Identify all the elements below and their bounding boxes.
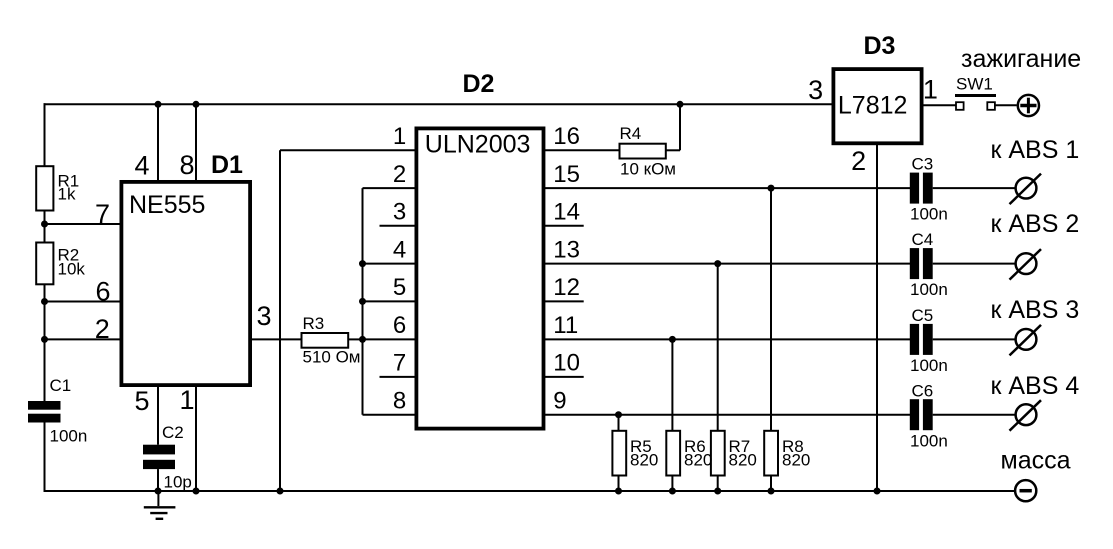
svg-text:10 кОм: 10 кОм <box>620 160 676 179</box>
svg-text:10p: 10p <box>164 473 192 492</box>
wire R8 vertical top <box>770 188 772 431</box>
svg-text:R4: R4 <box>620 124 642 143</box>
resistor R6 <box>666 431 680 476</box>
svg-text:5: 5 <box>134 386 149 416</box>
svg-text:820: 820 <box>729 451 757 470</box>
capacitor C3 plates <box>910 173 919 204</box>
IC D1 NE555 box <box>121 182 250 385</box>
wire input bracket vertical <box>362 188 364 415</box>
junction dots ABS rows <box>768 185 775 192</box>
svg-text:2: 2 <box>851 146 866 176</box>
wire left rail upper <box>44 103 46 401</box>
IC D3 L7812 box <box>833 69 921 143</box>
capacitor C5 plates <box>910 324 919 355</box>
IC D2 ULN2003 box <box>416 128 543 428</box>
wire left rail lower <box>44 423 46 493</box>
svg-text:12: 12 <box>553 274 580 301</box>
wire ULN pin9 row4 left of C6 <box>544 414 910 416</box>
capacitor C4 plates <box>910 248 919 279</box>
svg-text:к ABS 3: к ABS 3 <box>991 296 1080 324</box>
svg-text:D1: D1 <box>211 151 243 179</box>
wire R7 vertical top <box>717 264 719 431</box>
svg-text:16: 16 <box>553 123 580 150</box>
svg-text:1k: 1k <box>58 185 76 204</box>
svg-text:10: 10 <box>553 350 580 377</box>
svg-text:масса: масса <box>1001 447 1071 475</box>
wire ULN pin2 <box>363 187 417 189</box>
svg-text:к ABS 4: к ABS 4 <box>991 372 1080 400</box>
wire ULN pin3 stub <box>380 225 417 227</box>
svg-text:100n: 100n <box>910 280 948 299</box>
ULN2003 pin numbers right <box>553 123 580 415</box>
wire ULN pin7 stub <box>380 376 417 378</box>
wire NE555 pin5 vertical lower <box>157 469 159 491</box>
svg-text:2: 2 <box>393 161 406 188</box>
resistor R8 <box>764 431 778 476</box>
resistor R2 <box>36 243 53 285</box>
svg-text:8: 8 <box>393 388 406 415</box>
wire row4 right of C6 <box>933 414 1016 416</box>
resistor R4 <box>620 144 666 159</box>
svg-text:7: 7 <box>393 350 406 377</box>
svg-text:7: 7 <box>95 199 110 229</box>
wire NE555 pin5 vertical upper <box>157 385 159 445</box>
wire row1 right of C3 <box>933 187 1016 189</box>
svg-text:15: 15 <box>553 161 580 188</box>
svg-text:D3: D3 <box>864 32 896 60</box>
wire R5 vertical top <box>618 415 620 431</box>
wire NE555 pin8 vertical <box>195 104 197 182</box>
wire ULN pin6 <box>363 338 417 340</box>
wire NE555 pin3 to R3 <box>250 338 302 340</box>
svg-text:820: 820 <box>684 451 712 470</box>
terminal ABS1 <box>1010 174 1042 205</box>
svg-text:3: 3 <box>393 199 406 226</box>
svg-text:10k: 10k <box>58 260 86 279</box>
wire D3 pin2 vertical <box>876 145 878 491</box>
terminal ABS4 <box>1010 400 1042 431</box>
svg-text:к ABS 2: к ABS 2 <box>991 210 1080 238</box>
svg-text:1: 1 <box>179 385 194 415</box>
svg-text:13: 13 <box>553 236 580 263</box>
svg-text:SW1: SW1 <box>956 75 993 94</box>
svg-text:100n: 100n <box>50 427 88 446</box>
wire NE555 pin2 <box>45 338 123 340</box>
junction dots bracket <box>359 260 366 267</box>
svg-text:C6: C6 <box>912 382 934 401</box>
svg-text:зажигание: зажигание <box>961 45 1081 73</box>
wire R6 vertical top <box>671 339 673 431</box>
svg-text:C3: C3 <box>912 155 934 174</box>
L7812 pin numbers <box>808 75 938 177</box>
wire row2 right of C4 <box>933 263 1016 265</box>
small reference labels <box>50 75 993 492</box>
capacitor C1 plates <box>28 401 61 410</box>
svg-text:C2: C2 <box>162 423 184 442</box>
big labels <box>961 45 1081 475</box>
wire switch to plus terminal <box>995 104 1017 106</box>
svg-text:4: 4 <box>393 236 406 263</box>
svg-text:100n: 100n <box>910 356 948 375</box>
junction dots bottom rail <box>155 488 162 495</box>
wire R3 to bracket <box>348 338 362 340</box>
svg-text:14: 14 <box>553 199 580 226</box>
wire ULN pin14 stub <box>544 225 584 227</box>
wire R4 corner vertical to top rail <box>679 104 681 150</box>
wire ULN pin13 row2 left of C4 <box>544 263 910 265</box>
terminal plus (ignition) <box>1018 95 1039 116</box>
NE555 pin numbers <box>95 150 272 416</box>
resistor R7 <box>711 431 725 476</box>
svg-text:ULN2003: ULN2003 <box>425 131 531 159</box>
svg-text:C5: C5 <box>912 306 934 325</box>
svg-text:3: 3 <box>808 75 823 105</box>
resistor R1 <box>36 166 53 210</box>
svg-text:1: 1 <box>923 75 938 105</box>
wire R8 vertical bottom <box>770 476 772 492</box>
wire R4 to corner <box>666 149 680 151</box>
wire NE555 pin1 vertical <box>195 385 197 491</box>
junction dots top rail <box>155 101 162 108</box>
svg-text:R3: R3 <box>303 314 325 333</box>
wire NE555 pin4 vertical <box>157 104 159 182</box>
ULN2003 pin numbers left <box>393 123 406 415</box>
wire ULN pin1 horizontal <box>280 149 416 151</box>
wire ULN pin10 stub <box>544 376 584 378</box>
wire NE555 pin7 <box>45 223 123 225</box>
resistor R5 <box>612 431 626 476</box>
capacitor C2 plates <box>143 445 175 455</box>
junction dots left rail <box>41 221 48 228</box>
svg-text:820: 820 <box>630 451 658 470</box>
svg-text:2: 2 <box>95 314 110 344</box>
svg-text:6: 6 <box>95 277 110 307</box>
svg-text:D2: D2 <box>463 70 495 98</box>
wire ULN pin8 <box>363 414 417 416</box>
wire ULN pin5 <box>363 300 417 302</box>
svg-text:9: 9 <box>553 388 566 415</box>
wire R7 vertical bottom <box>717 476 719 492</box>
wire ULN pin11 row3 left of C5 <box>544 338 910 340</box>
terminal ABS3 <box>1010 325 1042 356</box>
svg-text:NE555: NE555 <box>129 191 205 219</box>
wire ULN pin12 stub <box>544 300 584 302</box>
wire ground stub <box>157 491 159 506</box>
svg-text:6: 6 <box>393 312 406 339</box>
svg-text:100n: 100n <box>910 432 948 451</box>
wire ULN pin16 to R4 <box>544 149 620 151</box>
wire D3 pin1 to switch <box>924 104 957 106</box>
svg-text:C1: C1 <box>50 376 72 395</box>
wire ULN pin4 <box>363 263 417 265</box>
wire R5 vertical bottom <box>618 476 620 492</box>
svg-text:C4: C4 <box>912 230 934 249</box>
terminal minus (масса) <box>1015 480 1036 501</box>
svg-text:1: 1 <box>393 123 406 150</box>
svg-text:L7812: L7812 <box>838 92 908 120</box>
svg-text:5: 5 <box>393 274 406 301</box>
ground <box>144 507 176 519</box>
wire NE555 pin6 <box>45 301 123 303</box>
wire R6 vertical bottom <box>671 476 673 492</box>
resistor R3 <box>302 333 349 348</box>
svg-text:100n: 100n <box>910 205 948 224</box>
svg-text:820: 820 <box>782 451 810 470</box>
svg-text:11: 11 <box>553 312 578 339</box>
svg-text:8: 8 <box>179 150 194 180</box>
capacitor C6 plates <box>910 399 919 430</box>
svg-text:к ABS 1: к ABS 1 <box>991 136 1080 164</box>
wire vertical x280 to ground rail <box>279 150 281 491</box>
wire ULN pin15 row1 left of C3 <box>544 187 910 189</box>
wire row3 right of C5 <box>933 338 1016 340</box>
terminal ABS2 <box>1010 249 1042 280</box>
svg-text:510 Ом: 510 Ом <box>303 348 361 367</box>
op-amp U1 n/a : IC boxes <box>121 69 921 429</box>
svg-text:4: 4 <box>134 151 149 181</box>
wire top rail <box>44 103 832 105</box>
svg-text:3: 3 <box>256 301 271 331</box>
wire bottom rail <box>44 490 1016 492</box>
switch SW1 <box>955 96 996 110</box>
